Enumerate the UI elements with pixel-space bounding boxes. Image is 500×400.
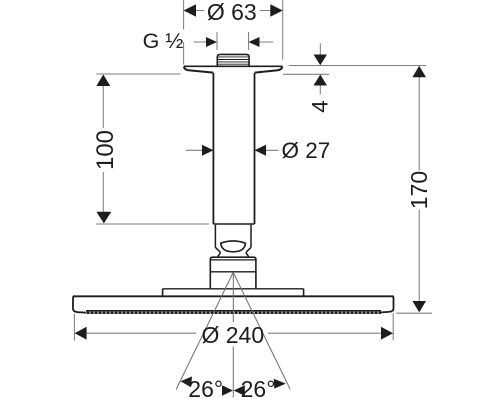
svg-text:170: 170 (406, 171, 432, 209)
spray angle centre arrowheads (222, 385, 245, 395)
dimension 170 line (418, 77, 420, 302)
dimension D63 extension lines (184, 0, 283, 65)
dimension 100 arrowheads (96, 75, 111, 224)
dimension G1/2 arrowheads (206, 37, 260, 47)
dimension 4 arrowheads (314, 55, 328, 86)
connector block upper (210, 257, 256, 272)
ball joint neck (215, 225, 251, 257)
dimension D27 leader lines (186, 149, 279, 151)
connector block lower (210, 272, 256, 289)
svg-text:G ½: G ½ (143, 29, 184, 53)
thread connector cap G1/2 (217, 54, 249, 66)
svg-text:26°: 26° (241, 376, 276, 400)
dimension 100 line (102, 85, 104, 213)
dimension 4 line (319, 43, 321, 94)
head mounting plate (163, 289, 304, 297)
svg-text:4: 4 (307, 100, 332, 113)
svg-text:Ø 27: Ø 27 (282, 138, 331, 163)
spray angle right arrowhead (274, 379, 286, 389)
spray angle left arrowhead (181, 377, 193, 388)
ceiling escutcheon plate (184, 66, 283, 72)
dimension 4 extension lines (283, 66, 426, 75)
dimension D63 arrowheads (184, 4, 283, 17)
spray cone boundary lines (176, 272, 290, 389)
dimension D240 extension lines (74, 313, 393, 341)
dimension 100 extension lines (96, 74, 209, 224)
dimension D27 arrowheads (202, 145, 266, 156)
ceiling supply pipe (213, 73, 254, 224)
dimension D240 line (86, 332, 382, 334)
ball joint lens (221, 241, 246, 252)
svg-text:100: 100 (92, 130, 119, 170)
svg-text:Ø 240: Ø 240 (201, 322, 264, 348)
dimension G1/2 leader lines (194, 41, 274, 43)
svg-text:26°: 26° (188, 376, 223, 400)
shower head disc (73, 296, 394, 312)
spray axis centre line (232, 272, 234, 397)
dimension G1/2 extension lines (217, 32, 249, 50)
dimension D240 arrowheads (75, 327, 393, 340)
svg-text:Ø 63: Ø 63 (207, 0, 257, 25)
dimension 170 extension line (396, 312, 432, 314)
dimension 170 arrowheads (412, 66, 426, 313)
dimension D63 line (195, 10, 271, 12)
nozzle spray face (86, 311, 381, 313)
